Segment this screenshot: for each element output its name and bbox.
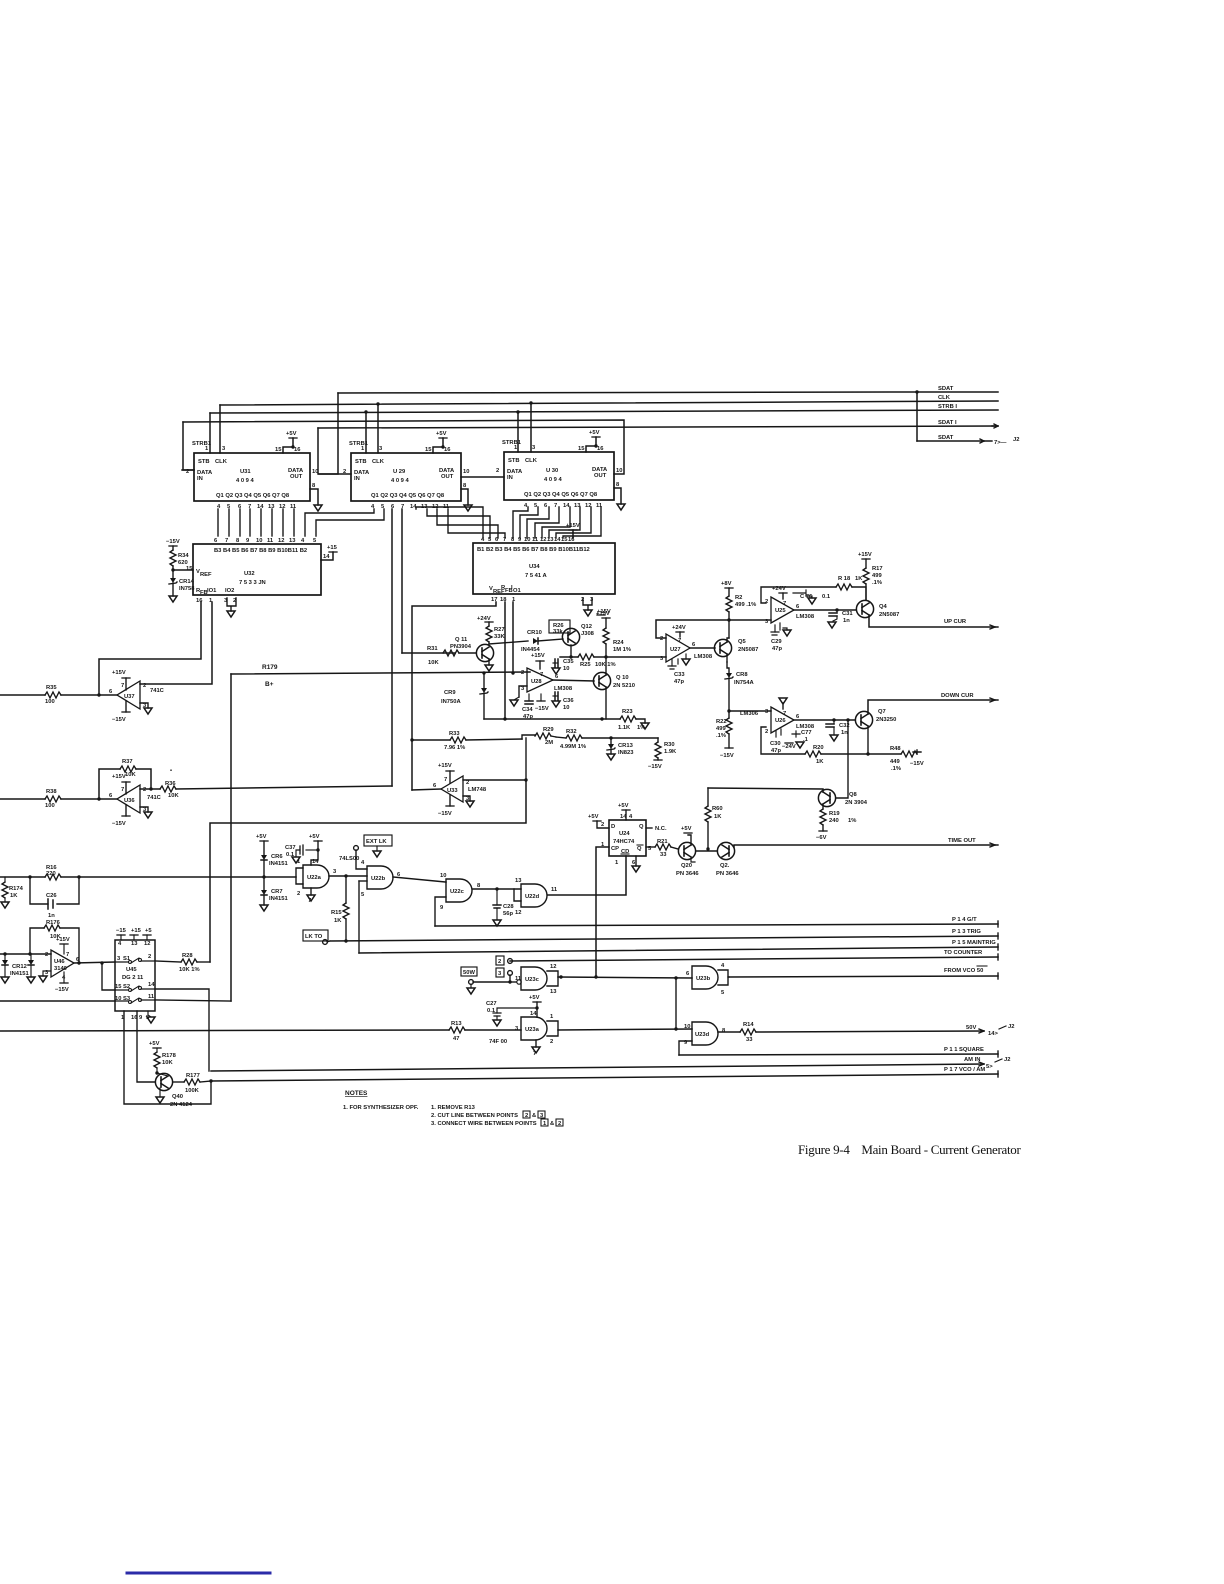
- svg-text:R37: R37: [122, 759, 133, 765]
- wire R28 riser to counter gate line: [210, 778, 528, 962]
- svg-text:6: 6: [544, 503, 548, 509]
- svg-text:U36: U36: [124, 798, 135, 804]
- wire summing line y719 with resistor R23: [484, 709, 649, 731]
- wire U22c pin9 to G/T line: [435, 897, 446, 926]
- wire P11 SQUARE line: [679, 1047, 998, 1057]
- svg-text:1: 1: [615, 860, 619, 866]
- svg-text:SDAT: SDAT: [938, 386, 954, 392]
- wire SDAT J2 line: [917, 440, 984, 442]
- svg-text:AM IN: AM IN: [964, 1057, 980, 1063]
- svg-text:7 5 3 3 JN: 7 5 3 3 JN: [239, 580, 266, 586]
- svg-text:0.1: 0.1: [286, 852, 295, 858]
- wire U25 out to Q4 base: [794, 609, 856, 611]
- svg-text:STRB1: STRB1: [349, 441, 369, 447]
- svg-text:2N 4124: 2N 4124: [170, 1102, 193, 1108]
- gate U23b: [686, 963, 729, 996]
- svg-text:3: 3: [532, 445, 536, 451]
- svg-text:2: 2: [45, 952, 48, 958]
- svg-text:2: 2: [143, 787, 146, 793]
- svg-text:Q1 Q2 Q3 Q4 Q5 Q6 Q7 Q8: Q1 Q2 Q3 Q4 Q5 Q6 Q7 Q8: [216, 493, 290, 499]
- IC U24 74HC74 flip-flop: [601, 814, 652, 866]
- power -15V U28: [535, 694, 549, 712]
- power +5V pull U31: [275, 431, 301, 453]
- svg-text:10: 10: [463, 469, 469, 475]
- svg-text:16: 16: [597, 446, 604, 452]
- svg-text:U23d: U23d: [695, 1032, 710, 1038]
- wire AM IN line: [211, 1057, 1010, 1071]
- zener CR9 IN750A: [441, 671, 488, 719]
- svg-text:1M 1%: 1M 1%: [613, 647, 631, 653]
- svg-text:13: 13: [515, 878, 522, 884]
- svg-text:CR14: CR14: [179, 579, 195, 585]
- svg-text:100: 100: [45, 803, 55, 809]
- svg-text:5: 5: [721, 990, 725, 996]
- ground U34 pins 2 3: [583, 598, 611, 616]
- svg-text:12: 12: [550, 964, 556, 970]
- node R179 B+ line: [231, 664, 530, 688]
- svg-text:33k: 33k: [553, 629, 563, 635]
- svg-text:+15: +15: [327, 545, 338, 551]
- svg-text:5: 5: [313, 538, 317, 544]
- wire U45 pin1 loop down: [124, 1011, 211, 1104]
- IC U32 7533 DAC: [186, 538, 321, 604]
- svg-text:10K 1%: 10K 1%: [179, 967, 200, 973]
- svg-text:11: 11: [267, 538, 274, 544]
- svg-text:9: 9: [518, 537, 522, 543]
- svg-text:2: 2: [148, 954, 151, 960]
- svg-text:8: 8: [236, 538, 240, 544]
- wire CLK riser U29: [377, 404, 379, 453]
- IC U31 4094: [182, 441, 318, 510]
- power +5V and C27 at U23a: [486, 995, 541, 1026]
- svg-text:1K: 1K: [334, 918, 342, 924]
- svg-text:R31: R31: [427, 646, 438, 652]
- wire SDAT J2 vertical: [916, 392, 918, 441]
- svg-text:1: 1: [550, 1014, 554, 1020]
- power +5V pull U30: [578, 430, 604, 452]
- svg-text:U 30: U 30: [546, 468, 558, 474]
- svg-text:9: 9: [139, 1015, 143, 1021]
- zener CR8 IN754A: [725, 662, 754, 712]
- svg-text:15: 15: [578, 446, 585, 452]
- wire Q7 base node down to Q8: [836, 718, 850, 798]
- svg-text:IN4151: IN4151: [269, 896, 288, 902]
- svg-text:4: 4: [118, 941, 122, 947]
- svg-text:33: 33: [660, 852, 667, 858]
- svg-text:+15V: +15V: [56, 937, 70, 943]
- svg-text:12: 12: [278, 538, 284, 544]
- svg-text:10: 10: [440, 873, 446, 879]
- svg-text:U32: U32: [244, 571, 255, 577]
- svg-text:10K: 10K: [162, 1060, 173, 1066]
- transistor Q10 2N5210: [593, 657, 635, 719]
- svg-text:220: 220: [46, 871, 56, 877]
- svg-text:+15V: +15V: [112, 774, 126, 780]
- wire CLK riser U31: [219, 405, 221, 453]
- svg-text:OUT: OUT: [594, 473, 607, 479]
- wire U37 feedback to U32 pin16: [97, 602, 201, 697]
- svg-text:J2: J2: [1013, 437, 1019, 443]
- svg-text:4: 4: [361, 860, 365, 866]
- svg-text:DOWN CUR: DOWN CUR: [941, 693, 974, 699]
- svg-text:U22c: U22c: [450, 889, 465, 895]
- wire U29 Q4 vertical to Q11 base: [401, 509, 403, 653]
- svg-text:6: 6: [555, 674, 559, 680]
- svg-text:EXT LK: EXT LK: [366, 839, 387, 845]
- wire STRB riser U31: [209, 413, 211, 453]
- svg-text:4: 4: [481, 537, 485, 543]
- svg-text:449: 449: [890, 759, 900, 765]
- svg-text:U45: U45: [126, 967, 137, 973]
- node SDAT J2 label: [938, 435, 1019, 446]
- svg-text:LM748: LM748: [468, 787, 487, 793]
- svg-text:10: 10: [563, 666, 569, 672]
- transistor Q11 PN3904: [450, 637, 494, 671]
- IC U29 4094: [343, 441, 469, 510]
- junction dots top bus: [376, 402, 379, 405]
- resistor R37 10K feedback: [97, 759, 172, 801]
- wire CLK riser U30: [530, 403, 532, 452]
- resistor R27 33K from +24V: [477, 616, 505, 644]
- wire STRB bus: [210, 410, 998, 413]
- resistor R176 10K feedback: [30, 920, 79, 963]
- svg-text:5: 5: [361, 892, 365, 898]
- svg-text:R179: R179: [262, 664, 278, 671]
- resistor R34 620: [166, 539, 189, 570]
- svg-text:R177: R177: [186, 1073, 200, 1079]
- svg-text:8: 8: [477, 883, 481, 889]
- svg-text:12: 12: [279, 504, 285, 510]
- resistor R174 1K to ground: [1, 877, 24, 908]
- transistor Q20 PN3646: [676, 826, 699, 877]
- svg-text:R36: R36: [165, 781, 176, 787]
- diode CR6 IN4151 column: [256, 834, 288, 877]
- wire P15 MAINTRIG long line: [359, 940, 998, 953]
- svg-text:−15V: −15V: [910, 761, 924, 767]
- wire U23c out line to U23b: [558, 975, 692, 979]
- svg-text:2: 2: [550, 1039, 553, 1045]
- svg-text:IO1: IO1: [207, 588, 217, 594]
- svg-text:10K: 10K: [428, 660, 439, 666]
- svg-text:J2: J2: [1008, 1024, 1014, 1030]
- svg-text:2: 2: [765, 729, 768, 735]
- svg-text:−15: −15: [116, 928, 127, 934]
- svg-text:C34: C34: [522, 707, 533, 713]
- svg-text:P 1 7 VCO / AM: P 1 7 VCO / AM: [944, 1067, 985, 1073]
- svg-text:47p: 47p: [674, 679, 684, 685]
- svg-text:8: 8: [722, 1028, 726, 1034]
- resistor R13 47 input line: [0, 1021, 521, 1042]
- svg-text:IN: IN: [354, 476, 360, 482]
- svg-text:−15V: −15V: [166, 539, 180, 545]
- svg-text:R38: R38: [46, 789, 57, 795]
- svg-text:D: D: [611, 824, 615, 830]
- svg-text:Q40: Q40: [172, 1094, 183, 1100]
- gate U23d: [684, 1022, 726, 1046]
- svg-text:7.96 1%: 7.96 1%: [444, 745, 465, 751]
- svg-text:R24: R24: [613, 640, 624, 646]
- ground U32 pins 3 2: [227, 598, 236, 617]
- svg-text:7 5 41 A: 7 5 41 A: [525, 573, 548, 579]
- svg-text:C33: C33: [674, 672, 685, 678]
- svg-text:11: 11: [148, 994, 155, 1000]
- op-amp U28 LM308: [521, 653, 573, 692]
- svg-text:14: 14: [563, 503, 570, 509]
- svg-text:LM306: LM306: [740, 711, 759, 717]
- notes block: [343, 1090, 563, 1127]
- op-amp U33 LM748 (output faces left): [433, 763, 487, 817]
- wire U23a out to U23d: [558, 1027, 692, 1030]
- svg-text:Q7: Q7: [878, 709, 886, 715]
- svg-text:7: 7: [783, 601, 786, 607]
- svg-text:SDAT: SDAT: [938, 435, 954, 441]
- resistor R24 1M from +15V: [596, 611, 631, 657]
- ground U30 pin 8: [614, 482, 625, 510]
- svg-text:STB: STB: [355, 459, 367, 465]
- svg-text:CP: CP: [611, 846, 619, 852]
- resistor R178 10K from +5V: [149, 1041, 177, 1073]
- svg-text:14: 14: [148, 982, 155, 988]
- resistor R38 100 input line: [0, 789, 117, 809]
- svg-text:FROM VCO 50: FROM VCO 50: [944, 968, 983, 974]
- diode CR10 IN4454: [521, 630, 563, 653]
- resistor R17 499 .1% from +15V: [858, 552, 883, 600]
- svg-text:R176: R176: [46, 920, 61, 926]
- svg-text:13: 13: [550, 989, 557, 995]
- svg-text:7>—: 7>—: [994, 440, 1007, 446]
- svg-text:12: 12: [144, 941, 150, 947]
- node CLK label: [938, 395, 951, 401]
- svg-text:−15V: −15V: [112, 717, 126, 723]
- IC U30 4094: [496, 440, 622, 509]
- svg-text:U34: U34: [529, 564, 540, 570]
- svg-text:+5V: +5V: [618, 803, 629, 809]
- svg-text:10: 10: [563, 705, 569, 711]
- wire SDAT bus top: [338, 392, 998, 393]
- svg-text:7: 7: [783, 711, 786, 717]
- capacitor C30 47p: [770, 741, 781, 754]
- svg-text:741C: 741C: [147, 795, 162, 801]
- capacitor C28 56p: [493, 889, 514, 926]
- resistor R35 100 input line: [0, 685, 117, 705]
- svg-text:3: 3: [765, 709, 769, 715]
- svg-text:15: 15: [425, 447, 432, 453]
- op-amp U36 741C (output faces left): [109, 774, 162, 827]
- svg-text:N.C.: N.C.: [655, 826, 667, 832]
- op-amp U25 LM308: [765, 597, 815, 625]
- svg-text:+5V: +5V: [589, 430, 600, 436]
- wire U27 out to Q5: [690, 647, 715, 649]
- svg-text:CR13: CR13: [618, 743, 634, 749]
- svg-text:7: 7: [225, 538, 228, 544]
- svg-text:LM308: LM308: [554, 686, 573, 692]
- svg-text:1K: 1K: [10, 893, 18, 899]
- svg-text:O1: O1: [513, 588, 522, 594]
- svg-text:B3 B4 B5 B6 B7 B8 B9 B10B11 B2: B3 B4 B5 B6 B7 B8 B9 B10B11 B2: [214, 548, 307, 554]
- transistor Q8 2N3904: [818, 789, 867, 806]
- svg-text:R33: R33: [449, 731, 460, 737]
- svg-text:7: 7: [121, 683, 124, 689]
- svg-text:1.9K: 1.9K: [664, 749, 677, 755]
- connector 50W boxed: [461, 967, 512, 994]
- svg-text:+15V: +15V: [112, 670, 126, 676]
- svg-text:U33: U33: [447, 788, 458, 794]
- svg-text:741C: 741C: [150, 688, 165, 694]
- svg-text:.1%: .1%: [872, 580, 882, 586]
- svg-text:11: 11: [551, 887, 558, 893]
- svg-text:13: 13: [289, 538, 296, 544]
- svg-text:STRB I: STRB I: [938, 404, 957, 410]
- zener CR14 IN758: [169, 570, 195, 602]
- svg-text:CR9: CR9: [444, 690, 456, 696]
- svg-text:+5: +5: [145, 928, 152, 934]
- svg-text:Q20: Q20: [681, 863, 692, 869]
- svg-text:U24: U24: [619, 831, 630, 837]
- resistor R48 449 .1% to -15V: [866, 726, 924, 772]
- svg-text:IN: IN: [197, 476, 203, 482]
- resistor R177 100K: [173, 1073, 213, 1094]
- svg-text:+15: +15: [131, 928, 142, 934]
- svg-text:+5V: +5V: [256, 834, 267, 840]
- svg-text:R34: R34: [178, 553, 189, 559]
- svg-text:R48: R48: [890, 746, 901, 752]
- svg-text:R21: R21: [657, 839, 668, 845]
- svg-text:OUT: OUT: [290, 474, 303, 480]
- svg-text:3. CONNECT WIRE BETWEEN POI: 3. CONNECT WIRE BETWEEN POINTS: [431, 1121, 537, 1127]
- svg-text:R17: R17: [872, 566, 883, 572]
- svg-text:5>: 5>: [986, 1064, 993, 1070]
- power +24V and capacitor C76 0.1: [772, 586, 831, 604]
- svg-text:−24V: −24V: [782, 744, 796, 750]
- svg-text:2: 2: [601, 822, 604, 828]
- wire TIME OUT line: [734, 838, 998, 847]
- svg-text:100: 100: [45, 699, 55, 705]
- svg-text:0.1: 0.1: [487, 1008, 496, 1014]
- resistor R32 4.99M 1%: [556, 729, 658, 750]
- wire U46 input line: [0, 952, 51, 955]
- resistor R22 499 .1% to -15V: [716, 709, 734, 759]
- gate U22d: [515, 878, 558, 916]
- resistor R15 1K drop to LK TO line: [331, 876, 349, 943]
- svg-text:P 1 4 G/T: P 1 4 G/T: [952, 917, 977, 923]
- resistor R18 1K feedback: [761, 576, 866, 603]
- wire U46 out to U45: [74, 961, 115, 964]
- svg-text:5: 5: [488, 537, 492, 543]
- svg-text:14>: 14>: [988, 1031, 998, 1037]
- svg-text:12: 12: [515, 910, 521, 916]
- svg-text:47: 47: [453, 1036, 459, 1042]
- svg-text:U22d: U22d: [525, 894, 540, 900]
- wire U33 pin2 loop to R29 junction: [463, 738, 526, 780]
- svg-text:+5V: +5V: [529, 995, 540, 1001]
- wire SDAT I bus: [318, 426, 998, 428]
- svg-text:OUT: OUT: [441, 474, 454, 480]
- svg-text:1n: 1n: [843, 618, 850, 624]
- diode CR7 IN4151: [260, 877, 288, 911]
- svg-text:4 0 9 4: 4 0 9 4: [544, 477, 563, 483]
- svg-text:STB: STB: [508, 458, 520, 464]
- svg-text:P 1 1 SQUARE: P 1 1 SQUARE: [944, 1047, 984, 1053]
- resistor R28 10K 1%: [155, 953, 210, 973]
- svg-text:−15V: −15V: [535, 706, 549, 712]
- svg-text:C26: C26: [46, 893, 57, 899]
- wire U31 data-out riser: [319, 393, 338, 474]
- svg-text:6: 6: [796, 714, 800, 720]
- resistor R33 7.96 1%: [410, 731, 522, 751]
- svg-text:6: 6: [686, 971, 690, 977]
- svg-text:Q2.: Q2.: [720, 863, 730, 869]
- svg-text:12: 12: [540, 537, 546, 543]
- svg-text:4 0 9 4: 4 0 9 4: [391, 478, 410, 484]
- svg-text:11: 11: [532, 537, 539, 543]
- svg-text:2: 2: [343, 469, 346, 475]
- svg-text:+8V: +8V: [721, 581, 732, 587]
- svg-text:1. REMOVE R13: 1. REMOVE R13: [431, 1105, 476, 1111]
- svg-text:2M: 2M: [545, 740, 553, 746]
- wire DOWN CUR output: [868, 693, 998, 714]
- svg-text:499: 499: [872, 573, 882, 579]
- svg-text:2N5087: 2N5087: [738, 647, 758, 653]
- svg-text:R22: R22: [716, 719, 727, 725]
- wire U24 CP down to gate line: [596, 847, 609, 977]
- transistor Q2 PN3646: [696, 842, 739, 877]
- svg-text:U37: U37: [124, 694, 135, 700]
- svg-text:CLK: CLK: [372, 459, 385, 465]
- capacitor C77 .1 and -24V: [776, 729, 812, 750]
- power +15 tick right of U32: [321, 545, 338, 560]
- svg-text:2N 5210: 2N 5210: [613, 683, 635, 689]
- svg-text:C28: C28: [503, 904, 514, 910]
- svg-text:.1%: .1%: [891, 766, 901, 772]
- resistor R29 2M: [522, 727, 556, 746]
- svg-text:+15V: +15V: [858, 552, 872, 558]
- svg-text:7: 7: [678, 638, 681, 644]
- svg-text:−15V: −15V: [438, 811, 452, 817]
- transistor Q4 2N5087: [856, 600, 899, 618]
- power +5V and C37 at U22a: [285, 834, 322, 865]
- svg-text:1. FOR SYNTHESIZER OPF.: 1. FOR SYNTHESIZER OPF.: [343, 1105, 419, 1111]
- svg-text:15: 15: [115, 984, 122, 990]
- svg-text:CR8: CR8: [736, 672, 748, 678]
- svg-text:7: 7: [533, 1051, 536, 1057]
- svg-text:B1 B2 B3 B4 B5 B6 B7 B8 B9 B10: B1 B2 B3 B4 B5 B6 B7 B8 B9 B10B11B12: [477, 547, 590, 553]
- svg-text:1n: 1n: [841, 730, 848, 736]
- node 50V J2 arrow: [966, 1024, 1014, 1037]
- svg-text:+24V: +24V: [477, 616, 491, 622]
- svg-text:R19: R19: [829, 811, 840, 817]
- svg-text:2N3250: 2N3250: [876, 717, 896, 723]
- wire U22b pin5 to MAINTRIG line: [358, 881, 360, 953]
- svg-text:10: 10: [256, 538, 262, 544]
- svg-text:2: 2: [525, 1113, 528, 1119]
- svg-text:U46: U46: [54, 959, 65, 965]
- svg-text:R15: R15: [331, 910, 342, 916]
- svg-text:2: 2: [297, 891, 300, 897]
- svg-text:+5V: +5V: [681, 826, 692, 832]
- svg-text:Q1 Q2 Q3 Q4 Q5 Q6 Q7 Q8: Q1 Q2 Q3 Q4 Q5 Q6 Q7 Q8: [371, 493, 445, 499]
- svg-text:STB: STB: [198, 459, 210, 465]
- svg-text:74HC74: 74HC74: [613, 839, 635, 845]
- svg-text:3: 3: [333, 869, 337, 875]
- wire P13 TRIG long line: [330, 929, 998, 941]
- svg-text:240: 240: [829, 818, 839, 824]
- svg-text:2: 2: [498, 959, 501, 965]
- svg-text:TIME OUT: TIME OUT: [948, 838, 976, 844]
- wire branch to S2: [102, 963, 115, 990]
- svg-text:PN 3646: PN 3646: [716, 871, 739, 877]
- svg-text:NOTES: NOTES: [345, 1090, 368, 1097]
- svg-text:DG 2 11: DG 2 11: [122, 975, 144, 981]
